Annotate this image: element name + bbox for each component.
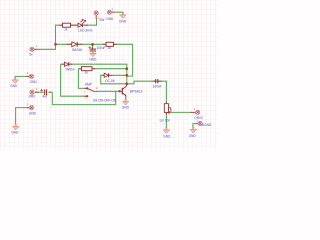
wire mid-left GND pin to GND flag bbox=[15, 76, 29, 78]
R1-LED lead bbox=[71, 24, 79, 26]
C3 left lead bbox=[153, 80, 156, 82]
svg-text:AMP: AMP bbox=[85, 83, 92, 87]
svg-text:SS ON-OFF-ON: SS ON-OFF-ON bbox=[93, 98, 117, 102]
node junction 1k row bbox=[125, 67, 128, 70]
svg-text:OC-06: OC-06 bbox=[105, 79, 115, 83]
resistor R2 2k bbox=[106, 42, 114, 50]
wire OC-06 loop bbox=[101, 75, 127, 84]
wire switch pin2 to base bbox=[98, 90, 120, 92]
capacitor C1 100uF bbox=[88, 46, 105, 51]
R3 right lead bbox=[92, 68, 95, 70]
ground flag (top right) bbox=[119, 13, 127, 24]
ground flag (emitter) bbox=[122, 99, 130, 109]
pin P3 5v bbox=[29, 44, 37, 56]
wire 1N914 row to collector vertical bbox=[61, 64, 127, 85]
pin DRV lead bbox=[35, 91, 39, 93]
D2 left lead bbox=[67, 43, 72, 45]
svg-text:GND: GND bbox=[189, 134, 197, 138]
LED right lead bbox=[85, 24, 88, 26]
D3 left lead bbox=[62, 63, 65, 65]
node junction at 5v riser bbox=[54, 43, 57, 46]
node junction at 100uF bbox=[91, 43, 94, 46]
svg-text:5v: 5v bbox=[29, 53, 33, 57]
ground flag (under 100uF) bbox=[89, 51, 97, 61]
svg-text:GND: GND bbox=[89, 57, 97, 61]
svg-text:DRV: DRV bbox=[29, 95, 37, 99]
LED D1 LED 3mm bbox=[78, 19, 93, 32]
capacitor C3 100nF bbox=[153, 79, 162, 89]
pin P5 DRV bbox=[29, 87, 38, 99]
svg-text:100uF: 100uF bbox=[96, 46, 105, 50]
resistor R1 (LED series) bbox=[63, 23, 71, 31]
D4 right lead bbox=[109, 74, 112, 76]
diode D4 OC-06 bbox=[104, 73, 115, 83]
ground flag (mid left) bbox=[10, 78, 18, 88]
wire 5v to LED row riser and SW pin bbox=[38, 18, 97, 49]
wire bottom-left GND pin to GND flag bbox=[16, 108, 30, 125]
transistor Q1 MPSA13 bbox=[118, 86, 142, 96]
C1 bottom lead bbox=[92, 50, 94, 52]
R1 left lead bbox=[60, 24, 63, 26]
svg-text:SW: SW bbox=[99, 18, 104, 22]
diode D3 1N914 bbox=[65, 62, 75, 71]
pin GND top lead bbox=[112, 11, 116, 13]
potentiometer RV1 Lin 10k bbox=[160, 104, 171, 123]
pin AGND lead bbox=[195, 123, 197, 125]
pin GND mid lead bbox=[26, 75, 29, 77]
wire base tee to bottom run and 4u7 cap bbox=[49, 91, 116, 104]
svg-text:MPSA13: MPSA13 bbox=[130, 89, 143, 93]
svg-text:GND: GND bbox=[122, 106, 130, 110]
pin P1 SW bbox=[94, 11, 104, 22]
R2 right lead bbox=[114, 43, 118, 45]
ground flag (bottom left) bbox=[11, 124, 19, 135]
Q1 collector lead bbox=[126, 85, 128, 86]
diode D2 BAT46 bbox=[72, 42, 82, 52]
RV1 top lead bbox=[165, 102, 167, 104]
node junction 100nF row bbox=[125, 82, 128, 85]
pin DRV2 lead bbox=[191, 111, 196, 113]
wire BAT46 row to 2k riser bbox=[56, 44, 133, 76]
wire 100nF row to pot top bbox=[127, 81, 167, 102]
svg-text:Lin 10k: Lin 10k bbox=[160, 118, 171, 122]
svg-text:GND: GND bbox=[119, 20, 127, 24]
red component leads bbox=[26, 12, 198, 123]
svg-text:100nF: 100nF bbox=[153, 85, 162, 89]
wire 100uF stub bbox=[92, 44, 94, 52]
D2 right lead bbox=[78, 43, 83, 45]
SW1 pin1 lead bbox=[84, 87, 87, 89]
switch SW1 AMP SS-OFF-ON bbox=[84, 83, 117, 103]
resistor R3 1k bbox=[82, 67, 93, 75]
SW1 pin3 lead bbox=[84, 95, 87, 97]
svg-text:GND: GND bbox=[106, 17, 114, 21]
C1 top lead bbox=[92, 47, 94, 49]
RV1 bottom lead bbox=[165, 112, 167, 114]
pin 5v lead bbox=[34, 48, 38, 50]
SW1 pin2 lead bbox=[95, 90, 98, 92]
svg-text:GND: GND bbox=[11, 131, 19, 135]
svg-text:AGND: AGND bbox=[202, 123, 212, 127]
svg-text:4u7: 4u7 bbox=[42, 95, 48, 99]
pin P6 GND (bottom left) bbox=[27, 102, 37, 115]
svg-text:1k: 1k bbox=[64, 28, 68, 32]
wire pot bottom to GND flag bbox=[165, 113, 167, 128]
node junction OC row bbox=[125, 74, 128, 77]
svg-text:2k: 2k bbox=[108, 46, 112, 50]
svg-text:GND: GND bbox=[10, 84, 18, 88]
svg-text:GND: GND bbox=[29, 111, 37, 115]
C2 right lead bbox=[49, 91, 51, 93]
wire top GND pin to GND flag bbox=[116, 12, 123, 13]
svg-text:BAT46: BAT46 bbox=[72, 48, 82, 52]
svg-text:GND: GND bbox=[30, 80, 38, 84]
Q1 emitter lead bbox=[125, 96, 127, 100]
ground flag (bottom right) bbox=[189, 127, 197, 138]
pin P7 DRV2 (right) bbox=[194, 107, 203, 120]
wire left loop to switch pin3 bbox=[61, 64, 87, 96]
pin SW lead bbox=[95, 15, 97, 19]
pin GND bottom lead bbox=[27, 107, 30, 109]
pin P8 AGND (right) bbox=[196, 118, 212, 127]
svg-text:GND: GND bbox=[163, 135, 171, 139]
svg-text:LED 3mm: LED 3mm bbox=[78, 28, 93, 32]
wire DRV pin to 4u7 cap bbox=[35, 91, 44, 93]
wire riser to switch pin1 bbox=[78, 69, 87, 89]
C3 right lead bbox=[158, 80, 161, 82]
D3 right lead bbox=[69, 63, 73, 65]
svg-text:1k: 1k bbox=[84, 71, 88, 75]
svg-text:1N914: 1N914 bbox=[65, 68, 75, 72]
wire right pin2 to GND flag bbox=[193, 124, 196, 128]
capacitor C2 4u7 bbox=[40, 89, 48, 99]
wire pot junction to right pin DRV2 bbox=[169, 111, 192, 113]
wire 1k row bbox=[78, 68, 126, 70]
pin P2 GND (top) bbox=[106, 7, 114, 21]
pin P4 GND (mid left) bbox=[27, 71, 38, 84]
R3 left lead bbox=[79, 68, 82, 70]
D4 left lead bbox=[102, 74, 104, 76]
R2 left lead bbox=[103, 43, 107, 45]
ground flag (pot) bbox=[163, 128, 171, 139]
